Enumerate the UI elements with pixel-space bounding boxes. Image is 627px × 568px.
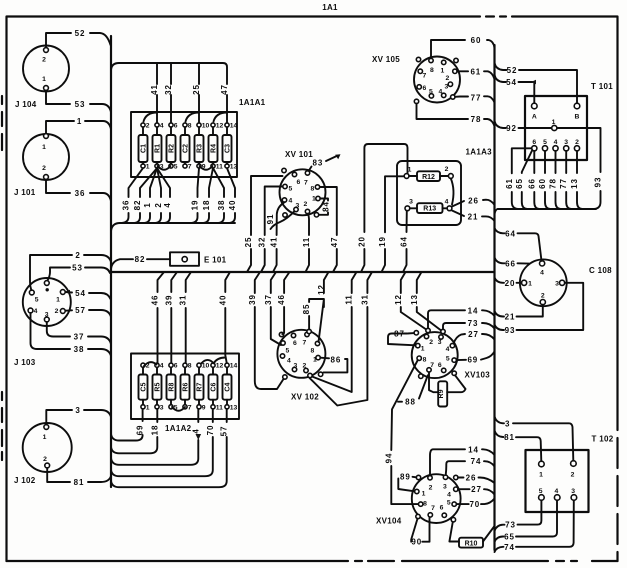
svg-text:74: 74 [504,543,515,552]
svg-text:40: 40 [228,200,237,211]
svg-text:65: 65 [515,178,524,189]
svg-text:6: 6 [438,362,442,369]
svg-text:31: 31 [179,295,188,306]
svg-text:57: 57 [75,306,86,315]
svg-text:R6: R6 [183,383,190,392]
svg-text:1: 1 [422,491,426,498]
svg-text:7: 7 [431,505,435,512]
svg-text:J 102: J 102 [14,476,36,485]
svg-text:1: 1 [552,119,556,126]
svg-text:R4: R4 [211,144,218,153]
wire 52 J104 [46,29,111,48]
svg-text:R7: R7 [197,383,204,392]
svg-text:2: 2 [304,201,308,208]
svg-text:7: 7 [188,164,192,171]
svg-text:8: 8 [430,67,434,74]
wire 90 XV104 [411,517,429,546]
svg-text:XV 102: XV 102 [291,393,319,402]
wire 93 C108 [495,283,584,335]
svg-text:T 101: T 101 [591,82,613,91]
wire 26 XV104 to trunk [458,474,495,484]
svg-text:2: 2 [446,75,450,82]
wire 84 XV101 bracket [319,199,330,215]
svg-text:66: 66 [505,259,516,268]
wire 1 J101 [46,117,111,134]
svg-text:8: 8 [423,357,427,364]
svg-text:3: 3 [564,139,568,146]
svg-text:87: 87 [394,330,405,339]
svg-text:1: 1 [441,68,445,75]
svg-text:8: 8 [311,348,315,355]
wire 2 (terminal 3) [154,168,161,223]
svg-text:20: 20 [357,236,366,247]
wire 78 (T101 term 4) [556,151,561,209]
svg-text:41: 41 [270,237,279,248]
svg-text:C2: C2 [183,144,190,153]
wire 47 (terminals 12,14) [111,63,227,123]
wire 66 C108 [495,258,530,269]
svg-text:C6: C6 [211,383,218,392]
svg-text:6: 6 [423,85,427,92]
svg-text:77: 77 [471,94,482,103]
svg-text:6: 6 [174,363,178,370]
1A1A2 bottom wires 69 18 4 70 57 [111,407,229,487]
wire 91 XV101 [266,211,295,229]
wire 4 (terminal 3) [157,168,170,223]
wire 64 C108 [495,228,542,261]
arc terminal2 to terminal4 1A1A3 [451,178,454,204]
svg-text:85: 85 [302,304,311,315]
svg-text:12: 12 [216,123,224,130]
wire 27 XV104 to trunk [458,485,495,494]
svg-text:61: 61 [470,67,481,76]
svg-text:32: 32 [164,84,173,95]
svg-text:1: 1 [408,167,412,174]
svg-text:8: 8 [188,123,192,130]
1A1A1 bottom fan to trunk [111,166,237,231]
svg-text:2: 2 [571,472,575,479]
wire 32 XV101 to trunk [258,187,283,273]
svg-text:XV 101: XV 101 [285,150,313,159]
svg-text:6: 6 [532,139,536,146]
wire 61 XV105 [457,67,494,79]
svg-text:7: 7 [304,180,308,187]
svg-text:4: 4 [445,199,449,206]
capacitor C3 [223,123,238,171]
wire 18 (terminal 11) [202,168,213,223]
svg-text:2: 2 [429,485,433,492]
svg-text:E 101: E 101 [204,256,227,265]
svg-text:4: 4 [34,308,38,315]
svg-text:T 102: T 102 [592,435,614,444]
svg-text:32: 32 [258,237,267,248]
wire 81 T102 [495,431,542,462]
svg-text:2: 2 [575,139,579,146]
svg-text:89: 89 [400,473,411,482]
wire 14 XV103 to trunk [428,306,495,328]
wire 26 1A1A3 to trunk [452,197,495,207]
svg-text:57: 57 [220,426,229,437]
svg-text:R2: R2 [169,144,176,153]
svg-text:1A1A1: 1A1A1 [239,98,266,107]
svg-text:3: 3 [438,339,442,346]
svg-text:1: 1 [143,202,152,207]
svg-text:14: 14 [230,363,238,370]
wire 27 XV103 to trunk [454,330,495,344]
svg-text:A: A [532,114,537,121]
svg-text:5: 5 [447,500,451,507]
wire 69 XV103 to trunk [456,352,494,365]
wire 41 XV101 to trunk [270,202,285,272]
svg-text:64: 64 [505,229,516,238]
wire 36 J101 [46,179,111,201]
svg-text:46: 46 [151,295,160,306]
svg-text:3: 3 [555,281,559,288]
svg-text:64: 64 [400,236,409,247]
svg-text:6: 6 [440,505,444,512]
svg-text:53: 53 [72,264,83,273]
svg-text:8: 8 [311,186,315,193]
svg-text:5: 5 [539,488,543,495]
svg-text:82: 82 [135,255,146,264]
svg-text:60: 60 [538,178,547,189]
svg-text:C4: C4 [225,383,232,392]
svg-text:2: 2 [43,456,47,463]
svg-text:5: 5 [543,139,547,146]
svg-text:5: 5 [289,186,293,193]
capacitor C2 [181,123,192,171]
svg-text:3: 3 [445,84,449,91]
tube socket XV103 [412,328,491,379]
wires 20 19 64 from 1A1A3 to trunk [357,144,408,272]
svg-text:36: 36 [75,189,86,198]
svg-text:18: 18 [202,200,211,211]
terminal board 1A1A1 [131,98,266,177]
svg-text:1: 1 [42,144,46,151]
wire 81 J102 [47,468,111,487]
svg-text:B: B [575,114,580,121]
svg-text:19: 19 [378,236,387,247]
svg-text:14: 14 [230,123,238,130]
wire 38 J103 [31,313,112,356]
svg-text:1: 1 [313,357,317,364]
module 1A1A3 [397,148,492,226]
svg-text:2: 2 [445,166,449,173]
svg-text:93: 93 [594,177,603,188]
svg-text:53: 53 [75,100,86,109]
svg-text:5: 5 [286,348,290,355]
T101 secondary wires [495,148,597,214]
svg-text:26: 26 [466,474,477,483]
tube socket XV102 [277,329,325,401]
wire 25 (terminals 8,10) [198,63,200,123]
wire 60 XV105 [431,36,495,58]
svg-text:4: 4 [191,428,200,433]
svg-text:74: 74 [471,457,482,466]
svg-text:5: 5 [429,89,433,96]
svg-text:12: 12 [394,294,403,305]
svg-text:11: 11 [216,404,223,411]
svg-text:1: 1 [56,297,60,304]
wire 61 (T101 term 6) [512,148,532,209]
svg-text:5: 5 [35,297,39,304]
svg-text:18: 18 [150,425,159,436]
svg-text:4: 4 [554,139,558,146]
svg-text:27: 27 [468,330,479,339]
svg-text:70: 70 [206,425,215,436]
svg-text:C 108: C 108 [589,266,612,275]
svg-text:2: 2 [75,251,80,260]
svg-text:6: 6 [293,340,297,347]
svg-text:J 104: J 104 [15,100,37,109]
svg-text:3: 3 [45,312,49,319]
svg-text:39: 39 [164,295,173,306]
svg-text:4: 4 [447,492,451,499]
svg-text:C3: C3 [225,144,232,153]
svg-text:R12: R12 [422,174,435,181]
fan bundle into left trunk [111,223,235,231]
svg-text:11: 11 [345,294,354,304]
svg-text:4: 4 [287,358,291,365]
resistor R4 [209,123,224,171]
svg-text:11: 11 [302,237,311,247]
svg-text:90: 90 [411,538,422,547]
svg-text:1: 1 [312,196,316,203]
svg-text:3: 3 [571,488,575,495]
svg-text:4: 4 [160,123,164,130]
wires 12 13 trunk to XV103 [394,272,441,330]
svg-text:3: 3 [505,419,510,428]
svg-text:4: 4 [540,270,544,277]
svg-text:2: 2 [541,293,545,300]
left page-edge dashes [1,96,3,460]
svg-text:4: 4 [289,198,293,205]
svg-text:6: 6 [174,123,178,130]
svg-text:5: 5 [174,164,178,171]
svg-text:4: 4 [555,488,559,495]
svg-text:73: 73 [468,319,479,328]
resistor R9 [429,372,466,406]
wire 41 (terminals 2,4) [156,63,158,123]
svg-text:2: 2 [154,202,163,207]
svg-text:12: 12 [216,363,224,370]
svg-text:1: 1 [146,164,150,171]
resistor R5 [153,363,164,412]
svg-text:2: 2 [42,165,46,172]
connector J104 [15,46,69,110]
left trunk [110,36,112,487]
svg-text:31: 31 [360,294,369,305]
svg-text:13: 13 [230,404,238,411]
svg-text:2: 2 [42,57,46,64]
svg-text:60: 60 [471,36,482,45]
wire 60 (T101 term 5) [545,151,550,209]
svg-text:52: 52 [75,29,86,38]
transformer T101 [525,82,613,160]
svg-text:27: 27 [471,485,482,494]
connector J103 [14,278,71,367]
svg-text:66: 66 [527,178,536,189]
transformer T102 [526,435,614,513]
wire 21 C108 [495,305,543,322]
svg-text:3: 3 [294,363,298,370]
svg-text:3: 3 [296,203,300,210]
wire 40 (terminal 13) [227,168,235,223]
wire 94 XV103 to XV104 [384,360,418,504]
wire 11 XV101 to trunk [302,214,311,272]
svg-text:61: 61 [505,178,514,189]
wire 32 (terminal 6) [170,63,172,123]
svg-text:1A1A2: 1A1A2 [165,424,192,433]
svg-text:92: 92 [506,124,517,133]
wire 92 + center tap 1 [495,119,603,209]
wire 77 XV105 [455,94,495,103]
svg-text:2: 2 [303,363,307,370]
svg-text:52: 52 [507,66,518,75]
svg-text:78: 78 [549,178,558,189]
svg-text:26: 26 [468,197,479,206]
wire 52 T101 [495,63,578,103]
svg-text:38: 38 [217,200,226,211]
svg-text:C5: C5 [141,383,148,392]
jumper terminals 3-5 [158,166,171,170]
resistor R3 [195,123,210,171]
svg-text:21: 21 [468,213,479,222]
svg-text:1: 1 [528,281,532,288]
svg-text:19: 19 [191,200,200,211]
svg-text:R9: R9 [438,389,445,398]
svg-text:11: 11 [216,164,223,171]
svg-text:39: 39 [248,294,257,305]
svg-text:XV 105: XV 105 [372,55,400,64]
svg-text:R10: R10 [465,540,478,547]
svg-text:94: 94 [384,453,393,464]
tube socket XV104 [376,474,461,525]
svg-text:R5: R5 [155,383,162,392]
svg-text:7: 7 [188,404,192,411]
svg-text:4: 4 [446,346,450,353]
wire 66 (T101 term 6) [534,151,539,209]
connector J101 [14,134,69,197]
svg-text:12: 12 [317,284,326,295]
wire 39 trunk to XV102 [248,272,284,389]
resistor R7 [195,363,210,412]
wire 53 J103 [48,264,111,281]
wire 82 E101 [111,255,170,269]
wire 21 1A1A3 to trunk [452,211,495,222]
svg-text:47: 47 [330,237,339,248]
svg-text:69: 69 [467,356,478,365]
svg-text:10: 10 [202,363,210,370]
wire 88 XV103 [398,375,428,406]
svg-text:70: 70 [469,500,480,509]
wire 57 J103 [65,306,111,317]
resistor R13 [405,199,452,214]
svg-text:37: 37 [264,294,273,305]
svg-text:1: 1 [77,117,82,126]
svg-text:2: 2 [146,123,150,130]
resistor R2 [167,123,178,171]
svg-text:J 103: J 103 [14,358,36,367]
T101 bundle into right trunk [495,209,597,214]
svg-text:4: 4 [163,202,172,207]
wire 65 (T101 term 6) [522,150,533,209]
svg-text:1: 1 [43,434,47,441]
svg-text:25: 25 [244,237,253,248]
svg-text:20: 20 [505,279,516,288]
svg-text:R1: R1 [155,144,162,153]
capacitor C5 [139,363,150,412]
resistor R6 [181,363,192,412]
svg-text:84: 84 [321,201,330,212]
svg-text:4: 4 [160,363,164,370]
svg-text:1A1: 1A1 [322,3,338,12]
svg-text:2: 2 [55,308,59,315]
resistor R10 [449,522,494,548]
wire 14 XV104 to trunk [430,445,495,475]
wire 83 XV101 [309,154,341,170]
svg-text:65: 65 [504,533,515,542]
wire 74 T102 [495,500,574,552]
wire 54 J103 [65,289,110,299]
wire 20 C108 [495,278,522,288]
wire 89 XV104 [398,473,416,492]
svg-text:41: 41 [150,84,159,95]
wire 65 T102 [495,500,558,542]
svg-text:83: 83 [313,159,324,168]
wire 46 trunk to XV102 [277,272,289,334]
wire 38 (terminal 11) [213,168,224,223]
svg-text:69: 69 [136,425,145,436]
wire 77 (T101 term 3) [566,151,571,209]
svg-text:8: 8 [188,363,192,370]
svg-text:C1: C1 [141,144,148,153]
svg-text:R13: R13 [423,206,436,213]
svg-text:78: 78 [471,115,482,124]
wire 12 trunk to XV102 + 85 [302,272,328,342]
svg-text:38: 38 [74,345,85,354]
resistor R12 [404,166,453,181]
wire 73 T102 [495,500,542,531]
wire 37 J103 [47,322,111,344]
capacitor C108 [520,259,612,306]
wire 54 T101 [495,75,537,103]
svg-text:1: 1 [146,404,150,411]
wire 36 (terminal 1) [120,168,143,223]
wire 19 (terminal 9) [190,168,199,223]
1A1A1 top bundle to trunk [111,63,229,123]
svg-text:81: 81 [504,433,515,442]
tube socket XV105 [372,55,460,104]
wire 1 (terminal 3) [143,168,157,223]
svg-text:81: 81 [74,478,85,487]
wire 25 XV101 to trunk [244,176,283,272]
svg-text:14: 14 [468,306,479,315]
svg-text:1: 1 [421,346,425,353]
svg-text:82: 82 [133,200,142,211]
wire 53 J104 [46,90,111,112]
svg-text:J 101: J 101 [14,188,36,197]
svg-text:73: 73 [505,521,516,530]
svg-text:13: 13 [570,178,579,189]
wire 73 XV103 to trunk [443,319,495,329]
wire 86 XV102 loop [320,356,347,373]
svg-text:13: 13 [230,164,238,171]
connector J102 [14,423,72,485]
svg-text:7: 7 [303,340,307,347]
svg-text:54: 54 [506,78,517,87]
svg-text:77: 77 [559,178,568,189]
